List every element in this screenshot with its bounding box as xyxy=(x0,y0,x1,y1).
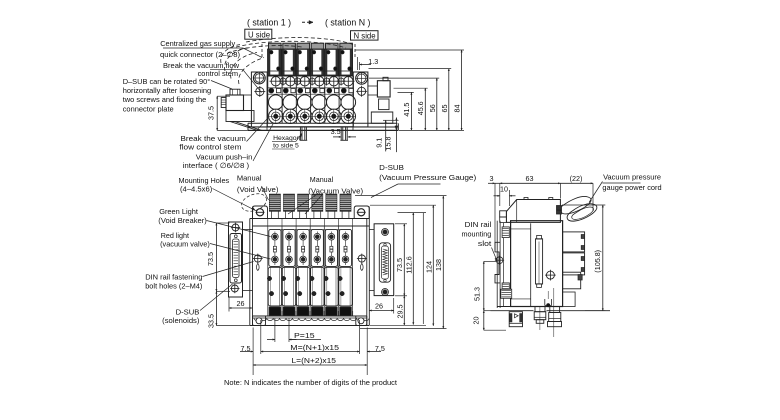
svg-text:Mounting Holes: Mounting Holes xyxy=(179,176,230,185)
svg-text:63: 63 xyxy=(526,174,534,183)
svg-text:138: 138 xyxy=(434,259,443,271)
svg-text:84: 84 xyxy=(453,105,462,113)
svg-text:37.5: 37.5 xyxy=(207,106,216,120)
svg-text:( station N ): ( station N ) xyxy=(325,17,371,27)
svg-text:Centralized gas supply: Centralized gas supply xyxy=(160,39,235,48)
svg-text:mounting: mounting xyxy=(462,230,492,239)
svg-text:horizontally after loosening: horizontally after loosening xyxy=(123,86,212,95)
svg-text:9.1: 9.1 xyxy=(375,138,384,148)
svg-text:33.5: 33.5 xyxy=(207,314,216,328)
svg-text:73.5: 73.5 xyxy=(206,252,215,266)
svg-text:Manual: Manual xyxy=(237,173,262,182)
svg-text:(vacuum valve): (vacuum valve) xyxy=(160,239,210,248)
svg-text:Vacuum push–in: Vacuum push–in xyxy=(196,152,253,161)
svg-text:26: 26 xyxy=(375,302,383,311)
svg-text:(22): (22) xyxy=(570,174,583,183)
svg-text:slot: slot xyxy=(478,239,492,248)
svg-text:quick connector (2–∅8): quick connector (2–∅8) xyxy=(160,50,241,59)
svg-text:20: 20 xyxy=(472,317,481,325)
svg-text:P=15: P=15 xyxy=(294,331,315,340)
svg-text:to side 5: to side 5 xyxy=(273,142,299,149)
svg-text:124: 124 xyxy=(425,261,434,273)
svg-text:1.3: 1.3 xyxy=(368,57,378,66)
svg-text:10: 10 xyxy=(500,185,508,194)
svg-text:L=(N+2)x15: L=(N+2)x15 xyxy=(292,356,337,365)
svg-text:26: 26 xyxy=(237,299,245,308)
svg-text:(solenoids): (solenoids) xyxy=(162,316,200,325)
svg-text:M=(N+1)x15: M=(N+1)x15 xyxy=(290,343,339,352)
svg-text:112.6: 112.6 xyxy=(405,256,414,273)
svg-text:bolt holes (2–M4): bolt holes (2–M4) xyxy=(145,282,203,291)
svg-text:45.6: 45.6 xyxy=(416,101,425,115)
svg-text:N side: N side xyxy=(354,31,376,40)
svg-text:65: 65 xyxy=(440,105,449,113)
svg-text:73.5: 73.5 xyxy=(395,258,404,272)
svg-text:flow control stem: flow control stem xyxy=(179,143,241,152)
svg-text:15.8: 15.8 xyxy=(383,137,392,151)
svg-text:51.3: 51.3 xyxy=(473,287,482,301)
svg-text:(4–4.5x6): (4–4.5x6) xyxy=(180,185,213,194)
svg-text:Green Light: Green Light xyxy=(159,207,199,216)
svg-text:3.5: 3.5 xyxy=(331,127,341,136)
svg-text:(Vacuum Valve): (Vacuum Valve) xyxy=(308,186,363,195)
svg-text:3: 3 xyxy=(490,174,494,183)
svg-text:( station 1 ): ( station 1 ) xyxy=(247,17,291,27)
svg-text:D–SUB can be rotated 90°: D–SUB can be rotated 90° xyxy=(123,77,211,86)
svg-text:Manual: Manual xyxy=(310,175,334,184)
svg-text:Break the vacuum: Break the vacuum xyxy=(181,134,246,143)
svg-text:DIN rail fastening: DIN rail fastening xyxy=(145,272,202,281)
svg-text:D-SUB: D-SUB xyxy=(379,163,404,172)
svg-text:DIN rail: DIN rail xyxy=(465,220,492,229)
svg-text:two screws and fixing the: two screws and fixing the xyxy=(123,95,207,104)
svg-text:U side: U side xyxy=(248,30,270,39)
svg-text:(Void Valve): (Void Valve) xyxy=(237,185,279,194)
svg-text:gauge power cord: gauge power cord xyxy=(602,183,661,192)
svg-text:29.5: 29.5 xyxy=(396,305,405,319)
svg-text:Note: N indicates the number o: Note: N indicates the number of digits o… xyxy=(224,378,398,387)
svg-text:connector plate: connector plate xyxy=(123,104,174,113)
svg-text:interface ( ∅6/∅8 ): interface ( ∅6/∅8 ) xyxy=(183,161,250,170)
svg-text:(Void Breaker): (Void Breaker) xyxy=(158,216,207,225)
svg-text:56: 56 xyxy=(428,104,437,112)
svg-text:(Vacuum Pressure Gauge): (Vacuum Pressure Gauge) xyxy=(379,173,477,182)
svg-text:Vacuum pressure: Vacuum pressure xyxy=(603,173,661,182)
svg-text:41.5: 41.5 xyxy=(402,103,411,117)
svg-text:(105.8): (105.8) xyxy=(593,250,602,273)
